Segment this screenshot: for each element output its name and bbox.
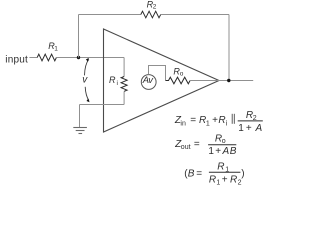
svg-text:1: 1	[238, 123, 244, 134]
wire bottom (Ri to ground corner)	[80, 104, 125, 106]
svg-text:in: in	[180, 120, 186, 127]
equation Zout	[174, 134, 237, 157]
svg-text:A: A	[255, 123, 263, 134]
svg-text:o: o	[222, 138, 226, 145]
op-amp U1 triangle	[104, 29, 220, 132]
wire feedback right vertical	[228, 15, 230, 81]
svg-text:=: =	[194, 139, 200, 150]
equation B	[184, 161, 244, 186]
node output junction	[227, 79, 230, 82]
svg-text:input: input	[5, 54, 28, 65]
wire Av to Ro	[149, 66, 166, 81]
svg-text:A: A	[222, 146, 230, 157]
resistor R1	[37, 54, 56, 61]
wire feedback left vertical	[78, 15, 80, 58]
svg-text:+: +	[222, 174, 228, 185]
svg-text:R: R	[230, 174, 237, 185]
wire R1 to Ri (input node)	[56, 57, 124, 59]
equation Zin	[174, 110, 263, 134]
svg-text:1: 1	[216, 180, 220, 187]
svg-text:i: i	[117, 80, 118, 87]
svg-text:2: 2	[153, 4, 157, 11]
label R1	[48, 41, 58, 52]
wire feedback top right	[161, 14, 229, 16]
svg-text:1: 1	[206, 120, 210, 127]
svg-text:out: out	[181, 144, 191, 151]
label R2	[147, 0, 157, 11]
svg-text:R: R	[218, 115, 225, 126]
voltage arc v (top segment with arrowhead)	[85, 58, 89, 76]
wire feedback top left	[79, 14, 141, 16]
resistor R2	[141, 11, 161, 18]
svg-text:v: v	[82, 74, 88, 85]
resistor Ri	[121, 77, 127, 92]
svg-text:=: =	[196, 168, 202, 179]
svg-text:+: +	[212, 115, 218, 126]
svg-text:1: 1	[54, 46, 58, 53]
svg-text:R: R	[109, 75, 116, 85]
resistor Ro	[166, 77, 191, 84]
label Av	[142, 74, 155, 85]
svg-text:o: o	[180, 70, 184, 77]
wire input to R1	[29, 57, 37, 59]
svg-text:R: R	[209, 174, 216, 185]
svg-text:=: =	[190, 115, 196, 126]
svg-text:+: +	[246, 123, 252, 134]
label Ro	[173, 67, 183, 78]
dependent source Av circle	[141, 75, 156, 90]
label Ri	[109, 75, 118, 87]
svg-text:2: 2	[253, 115, 257, 122]
svg-text:+: +	[215, 146, 221, 157]
wire ground riser	[79, 105, 81, 128]
svg-text:B: B	[188, 168, 195, 179]
wire output	[219, 80, 253, 82]
svg-text:1: 1	[208, 146, 214, 157]
ground	[73, 128, 87, 134]
node input junction	[77, 56, 80, 59]
svg-text:i: i	[226, 120, 228, 127]
svg-text:2: 2	[238, 180, 242, 187]
wire Ro to output apex	[190, 80, 219, 82]
svg-text:1: 1	[225, 166, 229, 173]
svg-text:): )	[241, 168, 244, 179]
svg-text:R: R	[217, 161, 224, 172]
voltage arc v (bottom segment with arrowhead)	[85, 87, 89, 102]
wire Ri top lead	[123, 58, 125, 77]
wire Ri bottom lead	[123, 91, 125, 104]
svg-text:B: B	[230, 146, 237, 157]
